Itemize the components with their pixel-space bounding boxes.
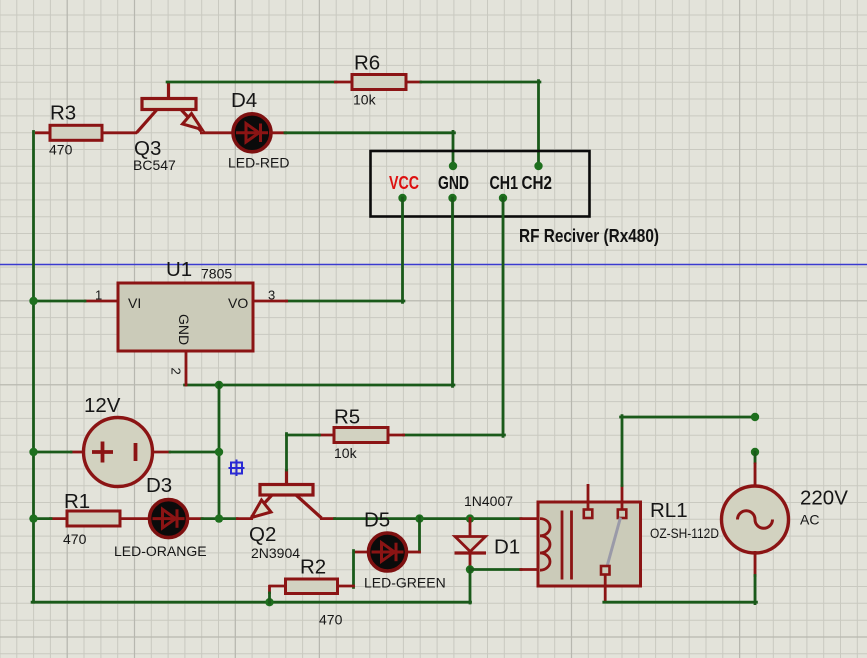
resistor R6	[334, 81, 353, 84]
svg-text:CH2: CH2	[522, 173, 553, 193]
regulator U1 7805	[84, 300, 119, 303]
node D1 bottom	[466, 565, 474, 573]
svg-text:D1: D1	[494, 536, 520, 559]
svg-text:VCC: VCC	[389, 173, 419, 193]
wire AC source bottom	[754, 551, 757, 577]
wire relay NO up and across top	[621, 416, 624, 486]
svg-text:RF Reciver (Rx480): RF Reciver (Rx480)	[519, 226, 659, 246]
wire R2 to bottom run	[268, 593, 271, 603]
svg-text:LED-ORANGE: LED-ORANGE	[114, 543, 207, 559]
svg-text:R3: R3	[50, 102, 76, 125]
sheet border line (blue)	[0, 264, 867, 266]
node VCC	[398, 194, 406, 202]
node top wire end	[751, 413, 759, 421]
node rail-pin1	[29, 297, 37, 305]
wire VCC to U1 VO	[401, 198, 404, 302]
resistor R3	[35, 131, 52, 134]
wire U1 pin1 to rail	[33, 300, 85, 303]
svg-text:R1: R1	[64, 490, 90, 513]
relay NC pin stub	[587, 484, 590, 511]
node junction R2-bottom	[265, 598, 273, 606]
node CH2 top	[534, 162, 542, 170]
node CH1	[499, 194, 507, 202]
svg-text:LED-GREEN: LED-GREEN	[364, 575, 446, 591]
svg-text:LED-RED: LED-RED	[228, 155, 289, 171]
wire Q3 base to R6	[167, 81, 336, 84]
wire bottom right run	[604, 601, 757, 604]
svg-text:1: 1	[95, 288, 102, 303]
wire rail to battery	[33, 451, 71, 454]
svg-text:BC547: BC547	[133, 157, 176, 173]
svg-text:U1: U1	[166, 258, 192, 281]
relay switch arm	[607, 518, 621, 567]
node GND-net tee	[215, 381, 223, 389]
wire GND to ground net	[451, 198, 454, 386]
svg-text:2N3904: 2N3904	[251, 545, 300, 561]
svg-text:10k: 10k	[353, 92, 377, 108]
LED D4	[233, 114, 271, 152]
node D1 top	[466, 514, 474, 522]
relay NO pin stub	[621, 485, 624, 511]
AC source 220V	[754, 451, 757, 464]
transistor Q3	[137, 82, 234, 133]
svg-text:470: 470	[63, 531, 87, 547]
wire rail to R1	[33, 517, 51, 520]
node rail-battery	[29, 448, 37, 456]
svg-text:Q2: Q2	[249, 523, 276, 546]
svg-text:1N4007: 1N4007	[464, 493, 513, 509]
svg-text:2: 2	[169, 368, 184, 375]
node mid-emitter	[215, 514, 223, 522]
svg-text:R2: R2	[300, 556, 326, 579]
transistor Q2	[236, 469, 336, 519]
node GND top	[449, 162, 457, 170]
svg-text:12V: 12V	[84, 394, 121, 417]
node AC source top terminal	[751, 448, 759, 456]
svg-text:VI: VI	[128, 295, 141, 311]
wire D3 to Q2 emitter	[202, 517, 237, 520]
svg-text:470: 470	[319, 612, 343, 628]
LED D3	[150, 500, 188, 538]
svg-text:R5: R5	[334, 406, 360, 429]
svg-text:CH1: CH1	[490, 173, 519, 193]
svg-text:7805: 7805	[201, 266, 232, 282]
node rail-R1	[29, 514, 37, 522]
wire middle vertical ground branch	[218, 384, 221, 520]
wire D5 to R2	[352, 551, 355, 588]
RF receiver module box	[371, 151, 590, 217]
wire D5 up branch	[418, 517, 421, 552]
wire D4 to GND pin	[285, 131, 454, 134]
svg-text:OZ-SH-112D: OZ-SH-112D	[650, 525, 719, 541]
wire R5 to Q2 base	[287, 434, 320, 437]
svg-text:D3: D3	[146, 474, 172, 497]
svg-text:D4: D4	[231, 89, 257, 112]
relay common pin to bottom	[604, 575, 607, 602]
svg-text:220V: 220V	[800, 487, 848, 510]
svg-text:RL1: RL1	[650, 499, 688, 522]
svg-text:470: 470	[49, 142, 73, 158]
wire battery to mid branch	[170, 451, 220, 454]
node D5 branch	[415, 514, 423, 522]
svg-text:GND: GND	[176, 314, 192, 345]
svg-text:3: 3	[268, 288, 275, 303]
svg-text:VO: VO	[228, 295, 248, 311]
node mid-battery	[215, 448, 223, 456]
origin marker (blue crosshair)	[229, 460, 245, 477]
wire R6 to CH2	[421, 81, 540, 84]
wire CH1 to R5	[502, 198, 505, 436]
wire Q2 collector run to relay coil	[335, 517, 521, 520]
battery 12V	[70, 451, 85, 454]
svg-text:R6: R6	[354, 52, 380, 75]
svg-text:AC: AC	[800, 512, 819, 528]
wire left rail	[32, 132, 35, 603]
resistor R5	[318, 434, 336, 437]
node GND bottom	[448, 194, 456, 202]
wire D1 bottom to ground run	[469, 568, 472, 603]
wire bottom ground run	[32, 601, 470, 604]
diode D1 1N4007	[469, 517, 472, 538]
resistor R1	[49, 517, 69, 520]
wire D1 bottom to relay coil	[470, 568, 521, 571]
relay RL1	[520, 517, 541, 520]
svg-text:10k: 10k	[334, 445, 358, 461]
svg-text:D5: D5	[364, 509, 390, 532]
resistor R2	[337, 585, 355, 588]
svg-text:GND: GND	[438, 173, 469, 193]
